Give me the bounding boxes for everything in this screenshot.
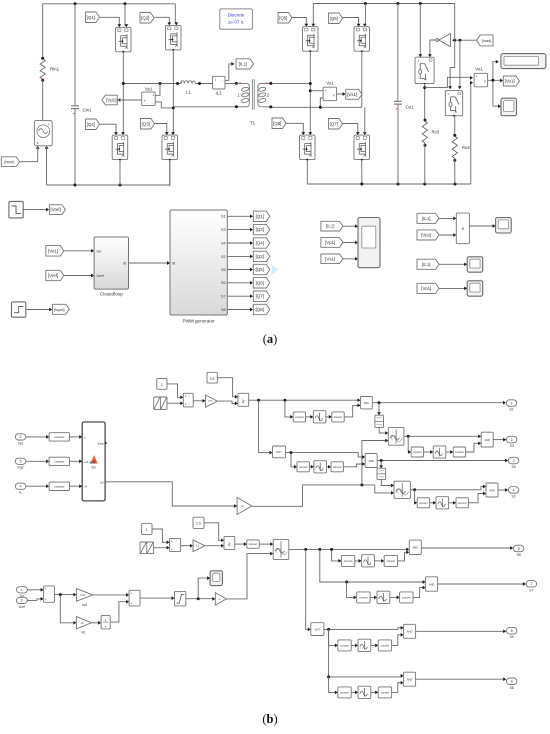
wire branch to convert chain S8: [329, 677, 336, 693]
wire top primary rail: [43, 3, 176, 5]
svg-text:NOT: NOT: [276, 450, 282, 454]
svg-text:convert: convert: [249, 542, 258, 546]
wire rt1 to wave1: [379, 427, 386, 433]
svg-text:AND: AND: [484, 438, 490, 442]
subsystem PWM generator: [170, 210, 227, 315]
svg-text:[Vp1]: [Vp1]: [421, 232, 431, 237]
pwm wave block 3: [273, 539, 289, 559]
wire gain k2 to phase node: [252, 485, 375, 506]
tag Vs1 (goto): [346, 89, 362, 99]
svg-text:ki1: ki1: [81, 630, 85, 634]
wire wave1 out: [404, 435, 480, 437]
wire breaker1 to Ro3: [424, 84, 426, 121]
wire step to input tag: [26, 309, 51, 311]
svg-text:convert: convert: [402, 595, 411, 599]
inport 3 Vy1: [15, 434, 25, 440]
tag Vo1 (from) scope4: [417, 283, 439, 293]
svg-text:convert: convert: [299, 465, 308, 469]
wire bottom secondary rail: [307, 183, 471, 185]
wire Q7 gate: [343, 124, 358, 134]
svg-text:1e-07 s.: 1e-07 s.: [228, 19, 245, 24]
wire node C to secondary top: [309, 82, 312, 85]
AND gate S1: [361, 397, 373, 409]
wire sum3 to gain kp1: [55, 594, 75, 596]
svg-text:IL: IL: [19, 491, 22, 495]
wire delay r1 to convert r1b: [326, 416, 330, 418]
svg-text:[load]: [load]: [482, 38, 492, 43]
svg-text:Vy1: Vy1: [18, 441, 24, 445]
wire Q2 drain from rail: [174, 4, 176, 24]
svg-text:kp1: kp1: [82, 603, 87, 607]
sum block PI: [44, 586, 55, 602]
tag Q1 gate (from): [86, 12, 100, 23]
wire product to scope2: [469, 225, 493, 227]
svg-text:convert: convert: [387, 559, 396, 563]
scope output voltage: [501, 98, 517, 116]
svg-text:Cin1: Cin1: [83, 108, 93, 113]
svg-text:AND: AND: [364, 401, 370, 405]
svg-text:S6: S6: [221, 281, 226, 285]
wire branch to convert chain S7: [347, 582, 355, 597]
svg-text:[input]: [input]: [54, 307, 65, 312]
wire NOT b1 out to AND S4: [286, 453, 364, 457]
powergui block Discrete: [220, 9, 253, 29]
wire convert2 to wave3: [259, 543, 271, 545]
svg-text:1: 1: [161, 383, 163, 387]
rate transition 1: [375, 415, 384, 427]
wire AND S8 to outport S8: [416, 678, 505, 680]
tag IL1 (from) scope3: [417, 259, 439, 269]
svg-text:v: v: [333, 93, 335, 97]
tag load (from): [477, 35, 493, 46]
tag [Q2] (goto): [253, 251, 269, 261]
svg-text:delay: delay: [98, 442, 105, 445]
wire fcn x3r to gain k2: [105, 482, 235, 506]
svg-text:[Q1]: [Q1]: [87, 15, 95, 20]
svg-text:3: 3: [513, 459, 515, 463]
svg-text:AND: AND: [429, 582, 435, 586]
convert block r1a: [293, 412, 305, 422]
svg-text:[Q1]: [Q1]: [256, 214, 264, 219]
convert block s6b: [378, 640, 391, 651]
wire Vs1 to tag: [337, 93, 344, 95]
outport 2 S3: [506, 436, 517, 443]
wire s6a to delay s6: [351, 644, 356, 646]
resistor Ro4: [452, 136, 457, 158]
voltage measurement Vo1: [474, 73, 488, 87]
tag [Q4] (goto): [253, 238, 269, 248]
convert block s4a: [297, 462, 309, 472]
wire wave1 to convert chain S3: [408, 436, 409, 452]
wire Q1 drain from rail: [124, 4, 126, 26]
svg-text:1: 1: [511, 401, 513, 405]
svg-text:convert: convert: [413, 450, 422, 454]
wire source negative to bottom rail: [46, 146, 48, 185]
svg-text:-K-: -K-: [218, 599, 221, 601]
wire AND S4 to outport S4: [377, 460, 506, 462]
saturation block: [175, 591, 186, 606]
wire relational2 to convert2: [235, 543, 245, 545]
svg-text:Lowpass: Lowpass: [54, 485, 65, 489]
wire delay s5 to convert s5b: [374, 560, 382, 562]
wire input signal to source: [19, 147, 38, 162]
tag IL1 (from) product: [417, 213, 439, 223]
svg-text:S2: S2: [221, 255, 226, 259]
svg-text:+: +: [325, 89, 327, 93]
svg-text:+: +: [152, 94, 154, 98]
svg-text:S3: S3: [221, 228, 226, 232]
lowpass filter 1: [49, 433, 69, 441]
wire breaker1 from rail: [419, 4, 421, 56]
outport 5 S5: [513, 545, 524, 552]
wire left source branch: [42, 4, 44, 59]
wire constant1b to sum2: [152, 529, 168, 542]
svg-text:[Q5]: [Q5]: [279, 15, 287, 20]
convert block row2: [247, 540, 259, 548]
tag Vp1 (from) scope group: [321, 238, 343, 248]
AND gate S3: [481, 432, 493, 447]
transformer T1 primary winding: [236, 83, 249, 106]
tag Q5 gate (from): [278, 13, 292, 24]
svg-text:uO: uO: [84, 460, 89, 464]
convert block s5a: [341, 555, 354, 566]
svg-text:[IL1]: [IL1]: [422, 216, 431, 221]
wire Q4 source to bottom rail: [119, 160, 121, 185]
wire wave3 branch down to NOT b2: [306, 549, 309, 629]
svg-text:convert: convert: [381, 643, 390, 647]
resistor Ro3: [422, 121, 427, 143]
convert block s3a: [411, 447, 423, 457]
svg-text:[Q8]: [Q8]: [273, 121, 281, 126]
AND gate S5: [409, 540, 421, 554]
svg-text:[Vp1]: [Vp1]: [106, 98, 116, 103]
step block Vref source: [9, 201, 23, 218]
pwm wave block 1: [388, 427, 404, 445]
svg-text:S4: S4: [221, 241, 226, 245]
AND gate S4: [365, 454, 377, 468]
wire lowpass1 to fcn u: [70, 436, 81, 438]
wire ramp2 to sum2: [154, 547, 168, 549]
wire sum4 to saturation: [140, 597, 173, 599]
convert block s6a: [338, 640, 351, 651]
wire node D to Q7 drain: [363, 132, 367, 135]
svg-text:0.5: 0.5: [196, 522, 201, 526]
svg-text:convert: convert: [340, 643, 349, 647]
wire ki1 to integrator: [91, 622, 99, 624]
svg-text:≥: ≥: [228, 542, 231, 548]
outport 1 S1: [506, 400, 517, 407]
svg-text:AND: AND: [413, 546, 419, 550]
wire AND S5 to outport S5: [421, 547, 511, 549]
svg-text:L1: L1: [186, 90, 191, 95]
scope3 current: [467, 257, 483, 272]
svg-text:[Vo1]: [Vo1]: [421, 286, 431, 291]
wire convert s2b to AND S2: [468, 494, 484, 503]
svg-text:S1: S1: [221, 215, 226, 219]
transistor Q1: [116, 27, 132, 52]
wires tags to scope1: [343, 226, 356, 259]
wire Vo1 plus from load top node: [425, 77, 472, 87]
svg-text:Vs1: Vs1: [326, 81, 334, 86]
svg-text:+: +: [45, 587, 47, 591]
sum block row2: [170, 538, 181, 551]
node A wire to L1: [123, 83, 180, 85]
wire Vo1 output node: [488, 62, 502, 106]
svg-text:+: +: [130, 592, 132, 596]
wire IL1 to scope3: [439, 263, 465, 265]
svg-text:S4: S4: [511, 465, 515, 469]
svg-text:v: v: [144, 98, 146, 102]
wire branch to gain ki1: [60, 595, 74, 623]
sum block row1: [183, 393, 193, 407]
wire Vp1 minus tap: [155, 102, 173, 108]
outport 4 S2: [508, 487, 519, 494]
svg-text:3: 3: [20, 435, 22, 439]
display block: [501, 54, 546, 69]
tag Vref (goto): [49, 205, 65, 215]
convert block s2a: [417, 498, 429, 508]
svg-text:convert: convert: [381, 690, 390, 694]
wire wave2 out: [410, 487, 484, 490]
transformer T1 secondary winding: [258, 83, 271, 106]
svg-text:2: 2: [21, 599, 23, 603]
tag IL1 (goto): [236, 59, 254, 69]
convert block s3b: [453, 447, 465, 457]
scope b: [210, 571, 222, 586]
constant 1 row2: [142, 524, 152, 535]
svg-text:5: 5: [518, 547, 520, 551]
svg-text:[Q2]: [Q2]: [141, 15, 149, 20]
inport 5 Vg2: [15, 458, 25, 464]
tag [Q1] (goto): [253, 211, 269, 221]
svg-text:[Vs1]: [Vs1]: [347, 92, 357, 97]
tag Vref (from) to controller: [46, 270, 64, 280]
svg-text:Ro4: Ro4: [462, 145, 470, 150]
wire transformer secondary bottom: [271, 106, 362, 109]
wire sum2 to gain2: [181, 545, 192, 547]
outport 8 S8: [506, 678, 517, 685]
wire lowpass3 to fcn iO: [70, 485, 81, 487]
svg-text:Rin1: Rin1: [50, 67, 60, 72]
transistor Q6: [354, 27, 370, 52]
transport delay s3: [433, 446, 446, 458]
transport delay r1: [313, 411, 326, 423]
wire s7a to delay s7: [370, 596, 375, 598]
wire kp1 to sum4: [93, 594, 127, 596]
wire rail end down to load node: [454, 4, 456, 41]
wire Q3 gate: [155, 124, 167, 134]
svg-text:+: +: [48, 123, 50, 127]
svg-text:convert: convert: [455, 450, 464, 454]
wire Q1 source to node A: [122, 52, 124, 84]
wire AND S3 to outport S3: [493, 439, 504, 441]
tag Vo1 (goto): [503, 76, 519, 86]
wire delay s2 to convert s2b: [449, 502, 455, 504]
convert block s8a: [338, 687, 351, 698]
svg-text:fcn: fcn: [92, 466, 96, 470]
wire load signal to not input: [452, 39, 477, 41]
wire s8a to delay s8: [351, 691, 356, 693]
NOT gate b1: [273, 446, 286, 458]
wire NOT b2 to AND S6: [324, 628, 402, 630]
svg-text:[Q4]: [Q4]: [256, 241, 264, 246]
wire Q5 gate: [292, 18, 306, 25]
AND gate S2: [486, 483, 498, 497]
wire NOT b1 branch to convert chain S4: [291, 453, 295, 467]
integrator 1/s: [101, 615, 110, 629]
svg-text:[IL1]: [IL1]: [326, 224, 335, 229]
svg-text:0.5: 0.5: [210, 377, 215, 381]
wire branch to convert chain S6: [329, 629, 336, 645]
AND gate S7: [426, 577, 438, 591]
breaker block 1: [415, 57, 434, 83]
convert block s7b: [400, 592, 413, 603]
svg-text:AND: AND: [489, 488, 495, 492]
wire node A down to Q4 drain: [122, 84, 124, 134]
svg-text:[Q4]: [Q4]: [87, 122, 95, 127]
transistor Q7: [354, 135, 370, 160]
svg-text:Closedloop: Closedloop: [100, 292, 123, 297]
transformer T1 core: [253, 79, 255, 109]
wire node B down to Q3 drain: [172, 108, 174, 133]
tag [Q5] (goto): [253, 264, 269, 274]
convert block s8b: [378, 687, 391, 698]
wire Q4 gate: [100, 124, 117, 133]
scope2 power: [496, 218, 512, 234]
wire ramp1 to sum1: [167, 402, 182, 404]
svg-text:Ro3: Ro3: [432, 130, 440, 135]
wire s4a to delay s4: [309, 466, 312, 468]
relational operator row1: [238, 393, 249, 406]
wire convert s3b to AND S3: [466, 443, 480, 452]
gain 0.5 row1: [206, 395, 218, 407]
wire wave2 to convert chain S2: [414, 490, 417, 503]
wire AND S1 branch down to rate transition 1: [378, 403, 380, 414]
svg-text:4: 4: [513, 488, 515, 492]
wire Q7 source to bottom rail: [361, 160, 363, 184]
svg-text:0.5: 0.5: [208, 400, 212, 403]
not gate U1: [439, 34, 451, 47]
wire Vp1 plus tap: [155, 84, 160, 96]
capacitor Co1: [397, 4, 399, 102]
wire Vref to Closedloop Uref: [64, 275, 93, 277]
svg-text:S3: S3: [510, 444, 514, 448]
svg-text:convert: convert: [340, 690, 349, 694]
wire delay s4 to convert s4b: [327, 466, 330, 468]
svg-text:Uo: Uo: [97, 249, 102, 253]
wire AND S1 to outport S1: [372, 402, 504, 404]
svg-text:convert: convert: [333, 465, 342, 469]
wire integrator to sum4: [110, 602, 127, 622]
wire s3a to delay s3: [424, 451, 432, 453]
svg-text:S8: S8: [510, 686, 514, 690]
AC voltage source: [34, 120, 52, 145]
transport delay s5: [362, 555, 375, 567]
gain ki1: [76, 617, 91, 629]
svg-text:[Q6]: [Q6]: [330, 16, 338, 21]
wire Q2 source to node B: [172, 50, 174, 108]
lowpass filter 2: [49, 457, 69, 465]
svg-text:+: +: [171, 547, 173, 551]
wire step to Vref tag: [23, 209, 47, 211]
inport 4 IL: [15, 483, 25, 489]
wire Vo1 to scope4: [439, 287, 465, 289]
wire Q8 source to bottom rail: [306, 160, 308, 184]
MATLAB function block fcn: [82, 422, 105, 501]
wire Q5 drain from rail: [312, 4, 314, 25]
svg-text:convert: convert: [419, 501, 428, 505]
svg-text:6: 6: [511, 629, 513, 633]
wire bottom primary rail: [47, 184, 170, 186]
wire branch to convert chain row1: [285, 400, 292, 417]
wire inport3 to lowpass1: [26, 436, 48, 438]
wires tags to product: [439, 218, 455, 235]
wire wave3 out to AND S5: [289, 548, 408, 550]
wire convert r1b to AND S1: [344, 405, 359, 417]
svg-text:(b): (b): [262, 712, 277, 726]
svg-text:PWM generator: PWM generator: [183, 319, 216, 324]
tag input (from): [1, 157, 19, 167]
svg-text:AND: AND: [407, 678, 413, 682]
AND gate S8: [404, 672, 416, 686]
constant 1 row1: [157, 379, 167, 390]
wire inport1 to sum3: [27, 589, 42, 591]
svg-text:+: +: [45, 598, 47, 602]
scope4 voltage: [467, 281, 483, 296]
wire load node down to breaker2: [450, 40, 455, 87]
wire r1a to delay r1: [306, 416, 312, 418]
wire Vo1 to Closedloop Uo: [64, 250, 93, 252]
wire IL1 out to transformer: [225, 83, 236, 85]
svg-text:convert: convert: [458, 501, 467, 505]
wire convert s5b to AND S5: [398, 552, 408, 561]
svg-text:0.5: 0.5: [196, 545, 200, 548]
wire Q6 gate: [343, 18, 359, 25]
wire not output to breaker1 gate: [430, 40, 436, 55]
svg-text:convert: convert: [359, 595, 368, 599]
tag Vp1 (goto): [102, 95, 117, 105]
convert block s7a: [357, 592, 370, 603]
tag Q3 gate (from): [141, 119, 155, 130]
svg-text:[Q3]: [Q3]: [142, 121, 150, 126]
pwm wave block 2: [394, 481, 410, 498]
wire transformer primary bottom to node B: [173, 107, 236, 108]
wire constant05 to relational1: [217, 378, 236, 397]
svg-text:+: +: [185, 395, 187, 399]
wire main branch to NOT b1: [259, 400, 271, 452]
transistor Q2: [166, 25, 182, 50]
product block: [456, 213, 469, 244]
wire s5a to delay s5: [355, 560, 360, 562]
wire Q3 source to bottom rail: [169, 160, 171, 186]
svg-text:2: 2: [511, 438, 513, 442]
svg-text:%: %: [397, 492, 399, 494]
svg-text:1: 1: [146, 528, 148, 532]
svg-text:+: +: [476, 75, 478, 79]
svg-text:v: v: [484, 80, 486, 84]
wire gain k3 to wave3 phase: [226, 554, 271, 599]
tag Vs1 (from) scope group: [321, 254, 343, 264]
svg-text:[Q6]: [Q6]: [256, 280, 264, 285]
svg-text:%: %: [276, 552, 278, 554]
ramp carrier 1: [154, 397, 167, 409]
wire delay s6 to convert s6b: [371, 644, 377, 646]
lowpass filter 3: [49, 482, 69, 490]
tag IL1 (from) scope group: [321, 221, 343, 231]
gain 0.5 row2: [193, 540, 205, 552]
svg-text:Co1: Co1: [406, 105, 415, 110]
wire AND S2 to outport S2: [498, 489, 506, 491]
